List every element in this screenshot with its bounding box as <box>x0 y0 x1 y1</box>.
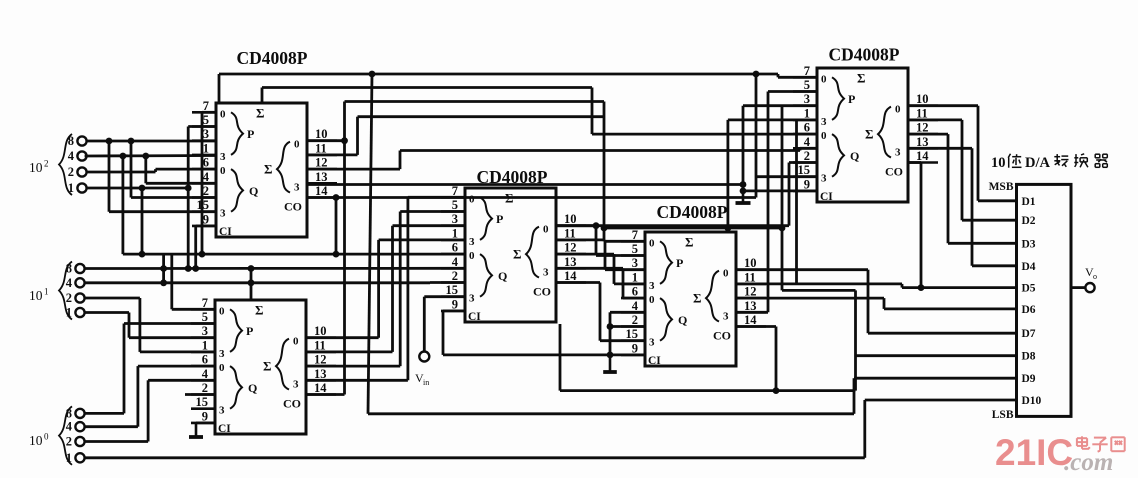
svg-text:13: 13 <box>564 255 577 269</box>
svg-text:5: 5 <box>452 198 458 212</box>
svg-text:3: 3 <box>821 116 827 128</box>
svg-text:10: 10 <box>916 92 929 106</box>
svg-text:in: in <box>423 378 429 387</box>
svg-text:0: 0 <box>649 237 655 249</box>
svg-text:0: 0 <box>294 139 300 151</box>
svg-text:2: 2 <box>68 165 74 179</box>
svg-text:3: 3 <box>202 324 208 338</box>
svg-text:2: 2 <box>44 159 49 169</box>
svg-text:3: 3 <box>632 256 638 270</box>
svg-text:14: 14 <box>314 381 327 395</box>
svg-text:14: 14 <box>744 313 757 327</box>
svg-text:11: 11 <box>744 270 756 284</box>
svg-text:Q: Q <box>498 269 507 283</box>
svg-text:3: 3 <box>220 151 226 163</box>
svg-text:D9: D9 <box>1022 373 1036 385</box>
svg-text:7: 7 <box>202 296 208 310</box>
svg-text:2: 2 <box>632 313 638 327</box>
svg-text:CI: CI <box>648 355 661 367</box>
svg-text:D/A: D/A <box>1025 155 1051 171</box>
svg-text:7: 7 <box>804 64 810 78</box>
svg-text:6: 6 <box>202 353 208 367</box>
svg-text:2: 2 <box>66 435 72 449</box>
svg-text:11: 11 <box>315 141 327 155</box>
svg-text:0: 0 <box>219 362 225 374</box>
svg-text:10: 10 <box>29 433 43 448</box>
svg-text:Q: Q <box>678 313 687 327</box>
svg-text:4: 4 <box>203 170 210 184</box>
svg-text:CO: CO <box>885 165 903 179</box>
svg-text:4: 4 <box>804 135 811 149</box>
svg-text:D10: D10 <box>1022 395 1042 407</box>
svg-text:0: 0 <box>649 294 655 306</box>
svg-text:3: 3 <box>804 92 810 106</box>
svg-text:1: 1 <box>66 451 72 465</box>
svg-text:0: 0 <box>723 268 729 280</box>
svg-text:Q: Q <box>249 184 258 198</box>
svg-text:CO: CO <box>283 397 301 411</box>
svg-text:2: 2 <box>804 149 810 163</box>
svg-text:13: 13 <box>315 170 328 184</box>
svg-text:P: P <box>676 256 683 270</box>
svg-text:14: 14 <box>916 149 929 163</box>
svg-text:CD4008P: CD4008P <box>657 202 728 222</box>
svg-text:15: 15 <box>446 283 459 297</box>
svg-text:0: 0 <box>44 432 49 442</box>
svg-text:P: P <box>247 127 254 141</box>
svg-text:3: 3 <box>220 208 226 220</box>
svg-text:4: 4 <box>202 367 209 381</box>
svg-text:Σ: Σ <box>256 105 265 120</box>
svg-text:0: 0 <box>220 165 226 177</box>
svg-text:8: 8 <box>68 134 74 148</box>
svg-text:3: 3 <box>469 293 475 305</box>
svg-text:CD4008P: CD4008P <box>237 48 308 68</box>
svg-text:1: 1 <box>804 106 810 120</box>
svg-text:10: 10 <box>564 212 577 226</box>
svg-text:10: 10 <box>315 127 328 141</box>
svg-text:15: 15 <box>626 327 639 341</box>
svg-text:7: 7 <box>203 99 209 113</box>
svg-text:Σ: Σ <box>685 234 694 249</box>
svg-text:CI: CI <box>219 226 232 238</box>
svg-text:6: 6 <box>203 156 209 170</box>
svg-text:0: 0 <box>219 305 225 317</box>
svg-text:9: 9 <box>632 341 638 355</box>
svg-text:10: 10 <box>29 288 43 303</box>
svg-text:.com: .com <box>1064 449 1113 476</box>
svg-text:4: 4 <box>632 299 639 313</box>
svg-text:Σ: Σ <box>513 247 522 262</box>
svg-text:6: 6 <box>452 241 458 255</box>
svg-text:P: P <box>496 212 503 226</box>
svg-text:1: 1 <box>632 270 638 284</box>
svg-text:P: P <box>848 92 855 106</box>
svg-text:Σ: Σ <box>264 162 273 177</box>
svg-text:0: 0 <box>821 130 827 142</box>
svg-text:0: 0 <box>895 104 901 116</box>
svg-text:Σ: Σ <box>857 70 866 85</box>
svg-text:2: 2 <box>452 269 458 283</box>
svg-text:4: 4 <box>66 420 73 434</box>
svg-text:D8: D8 <box>1022 351 1036 363</box>
svg-text:D1: D1 <box>1022 196 1036 208</box>
svg-text:Σ: Σ <box>865 127 874 142</box>
svg-text:5: 5 <box>203 113 209 127</box>
svg-text:D7: D7 <box>1022 328 1036 340</box>
svg-text:8: 8 <box>66 262 72 276</box>
svg-text:11: 11 <box>314 338 326 352</box>
svg-text:CI: CI <box>218 423 231 435</box>
svg-text:12: 12 <box>564 241 577 255</box>
svg-text:1: 1 <box>66 306 72 320</box>
svg-text:13: 13 <box>916 135 929 149</box>
svg-text:0: 0 <box>293 336 299 348</box>
svg-text:D5: D5 <box>1022 283 1036 295</box>
svg-text:3: 3 <box>219 348 225 360</box>
svg-text:Q: Q <box>248 381 257 395</box>
svg-text:0: 0 <box>469 193 475 205</box>
svg-text:o: o <box>1093 272 1097 281</box>
svg-text:14: 14 <box>564 269 577 283</box>
svg-text:3: 3 <box>293 379 299 391</box>
svg-text:15: 15 <box>196 395 209 409</box>
svg-text:5: 5 <box>632 242 638 256</box>
svg-text:0: 0 <box>543 224 549 236</box>
svg-text:5: 5 <box>804 78 810 92</box>
svg-text:3: 3 <box>821 173 827 185</box>
svg-text:9: 9 <box>804 177 810 191</box>
svg-text:3: 3 <box>895 147 901 159</box>
svg-text:CI: CI <box>468 311 481 323</box>
svg-text:2: 2 <box>203 184 209 198</box>
svg-text:0: 0 <box>469 250 475 262</box>
svg-text:D4: D4 <box>1022 261 1036 273</box>
svg-text:Q: Q <box>850 149 859 163</box>
svg-text:12: 12 <box>916 121 929 135</box>
svg-text:8: 8 <box>66 406 72 420</box>
svg-text:1: 1 <box>203 141 209 155</box>
svg-text:14: 14 <box>315 184 328 198</box>
svg-text:9: 9 <box>202 409 208 423</box>
svg-text:2: 2 <box>66 291 72 305</box>
svg-text:1: 1 <box>68 181 74 195</box>
svg-text:0: 0 <box>821 73 827 85</box>
svg-text:CI: CI <box>820 191 833 203</box>
svg-text:6: 6 <box>804 121 810 135</box>
svg-text:4: 4 <box>68 149 75 163</box>
svg-text:11: 11 <box>564 226 576 240</box>
svg-text:10: 10 <box>744 256 757 270</box>
svg-text:0: 0 <box>220 108 226 120</box>
svg-text:6: 6 <box>632 285 638 299</box>
svg-text:D3: D3 <box>1022 238 1036 250</box>
svg-text:1: 1 <box>44 287 49 297</box>
svg-text:3: 3 <box>543 267 549 279</box>
svg-text:CD4008P: CD4008P <box>829 45 900 65</box>
svg-text:P: P <box>246 324 253 338</box>
svg-text:10: 10 <box>314 324 327 338</box>
svg-text:CO: CO <box>284 200 302 214</box>
svg-text:7: 7 <box>632 228 638 242</box>
svg-text:3: 3 <box>219 405 225 417</box>
svg-text:CO: CO <box>713 329 731 343</box>
svg-text:1: 1 <box>452 226 458 240</box>
svg-text:15: 15 <box>798 163 811 177</box>
svg-text:2: 2 <box>202 381 208 395</box>
svg-text:21IC: 21IC <box>995 432 1073 473</box>
svg-text:10: 10 <box>29 160 43 175</box>
svg-text:9: 9 <box>452 297 458 311</box>
svg-text:3: 3 <box>469 236 475 248</box>
svg-text:4: 4 <box>66 276 73 290</box>
svg-text:4: 4 <box>452 255 459 269</box>
svg-text:10: 10 <box>991 155 1006 171</box>
svg-text:3: 3 <box>723 311 729 323</box>
svg-text:D2: D2 <box>1022 215 1036 227</box>
svg-text:3: 3 <box>203 127 209 141</box>
svg-text:3: 3 <box>649 337 655 349</box>
svg-text:9: 9 <box>203 212 209 226</box>
svg-text:Σ: Σ <box>693 291 702 306</box>
svg-text:11: 11 <box>916 106 928 120</box>
svg-text:MSB: MSB <box>989 181 1014 193</box>
svg-text:Σ: Σ <box>263 359 272 374</box>
svg-text:3: 3 <box>294 182 300 194</box>
svg-text:12: 12 <box>744 285 757 299</box>
svg-text:13: 13 <box>314 367 327 381</box>
svg-text:13: 13 <box>744 299 757 313</box>
svg-text:3: 3 <box>649 280 655 292</box>
svg-text:CO: CO <box>533 285 551 299</box>
svg-text:Σ: Σ <box>255 302 264 317</box>
svg-text:D6: D6 <box>1022 304 1036 316</box>
svg-text:7: 7 <box>452 184 458 198</box>
svg-text:5: 5 <box>202 310 208 324</box>
svg-text:3: 3 <box>452 212 458 226</box>
svg-text:LSB: LSB <box>992 409 1014 421</box>
svg-text:12: 12 <box>314 353 327 367</box>
svg-text:12: 12 <box>315 156 328 170</box>
svg-text:1: 1 <box>202 338 208 352</box>
